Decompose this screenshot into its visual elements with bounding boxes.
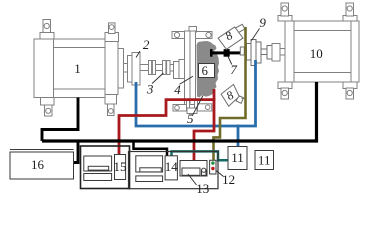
shaft segment bbox=[140, 65, 149, 71]
M10 bottom-left mount bbox=[278, 82, 292, 99]
wire olive: sensors 8 bbox=[214, 27, 246, 161]
wire black: bus drop to 16 bbox=[74, 141, 79, 163]
svg-text:3: 3 bbox=[146, 82, 154, 97]
box 14 bbox=[165, 156, 179, 180]
test head 6 (gray housing) bbox=[197, 41, 220, 98]
connector 12 bbox=[210, 160, 216, 174]
M1 bottom-right mount bbox=[105, 95, 117, 116]
M1 bottom-left mount bbox=[41, 98, 55, 117]
frame top bracket bbox=[172, 27, 212, 39]
label 2 bbox=[136, 51, 140, 58]
drive unit B bbox=[136, 156, 163, 182]
box 11 first bbox=[228, 147, 247, 170]
wire blue branch to PC 11 bbox=[237, 125, 240, 148]
svg-text:9: 9 bbox=[259, 15, 266, 30]
drive unit A bbox=[84, 156, 112, 181]
head label box 6 bbox=[199, 64, 215, 78]
svg-text:12: 12 bbox=[222, 172, 235, 187]
machine M10 body bbox=[285, 21, 359, 82]
svg-text:16: 16 bbox=[31, 157, 45, 172]
label 5 bbox=[192, 96, 203, 116]
svg-text:5: 5 bbox=[187, 111, 194, 126]
coupling C9 bbox=[240, 40, 272, 66]
label 13 leader bbox=[188, 174, 197, 185]
M10 top-left mount bbox=[278, 3, 292, 21]
svg-text:7: 7 bbox=[230, 62, 237, 77]
label 7 bbox=[228, 57, 232, 65]
wire black: branch to 14 bbox=[134, 141, 168, 156]
M1 top-left mount bbox=[40, 20, 54, 40]
coupling C3 flanges bbox=[149, 61, 174, 75]
instrument 13 bbox=[180, 161, 207, 177]
shaft S7 (black) bbox=[210, 49, 240, 57]
sensor 8 bottom bbox=[221, 84, 243, 106]
M1 top-right mount bbox=[105, 23, 119, 42]
svg-text:14: 14 bbox=[165, 159, 179, 174]
svg-text:4: 4 bbox=[174, 82, 181, 97]
svg-text:10: 10 bbox=[310, 46, 323, 61]
coupling C2 bbox=[128, 53, 141, 86]
M10 bottom-right mount bbox=[343, 82, 357, 99]
box 15 bbox=[114, 155, 127, 180]
svg-text:1: 1 bbox=[74, 61, 81, 76]
wire red: branch to 15 bbox=[119, 100, 215, 156]
svg-text:11: 11 bbox=[258, 153, 271, 168]
box 11 second bbox=[255, 151, 274, 170]
box 16 bbox=[10, 150, 74, 180]
label 12 leader bbox=[216, 171, 224, 177]
torque transducer plates bbox=[174, 60, 185, 79]
machine M10 left plate bbox=[272, 44, 285, 62]
sensor 8 top bbox=[218, 24, 245, 49]
machine M1 body bbox=[34, 39, 128, 98]
M10 top-right mount bbox=[343, 3, 357, 21]
svg-text:11: 11 bbox=[231, 150, 244, 165]
svg-text:13: 13 bbox=[196, 181, 209, 196]
wire teal: 14 to 11 bbox=[172, 151, 229, 160]
wire blue: speed sensor bus bbox=[136, 60, 256, 126]
svg-text:6: 6 bbox=[202, 64, 208, 78]
svg-text:15: 15 bbox=[114, 159, 127, 174]
left cabinet bbox=[81, 146, 130, 189]
right cabinet bbox=[129, 152, 219, 189]
frame bottom bracket bbox=[173, 100, 212, 114]
wire black: M1 to 16 bbox=[42, 98, 78, 142]
wire red: head to 13 bbox=[194, 89, 214, 161]
frame plate F4 bbox=[185, 31, 196, 105]
label 9 bbox=[252, 29, 260, 41]
wire black: main bus bbox=[42, 82, 317, 141]
label 3 bbox=[152, 73, 163, 84]
svg-text:2: 2 bbox=[143, 37, 150, 52]
label 4 bbox=[180, 76, 194, 84]
